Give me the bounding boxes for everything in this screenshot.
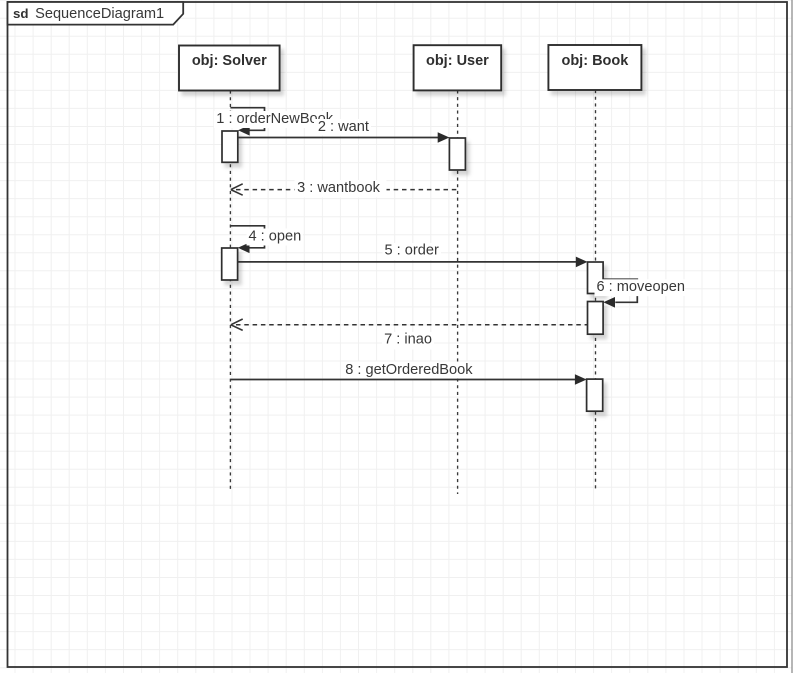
message 5 : order: [238, 257, 588, 268]
label 3 : wantbook: [295, 180, 387, 198]
lifeline Solver: [229, 91, 231, 490]
lifeline User: [457, 90, 459, 494]
message 2 : want: [238, 132, 450, 143]
actor box obj: User: [414, 45, 502, 90]
svg-text:8 : getOrderedBook: 8 : getOrderedBook: [345, 362, 473, 378]
svg-text:5 : order: 5 : order: [385, 243, 439, 259]
activation Book B1: [588, 262, 604, 294]
label 6 : moveopen: [595, 279, 686, 296]
label 8 : getOrderedBook: [344, 362, 474, 379]
canvas edge line: [791, 0, 793, 673]
label 5 : order: [383, 243, 442, 260]
activation Solver A2: [222, 248, 238, 280]
frame title tab sd SequenceDiagram1: [8, 2, 184, 25]
svg-text:3 : wantbook: 3 : wantbook: [297, 180, 380, 196]
svg-text:obj: Solver: obj: Solver: [192, 53, 267, 69]
activation User U1: [449, 138, 465, 170]
message 1 : orderNewBook (self): [230, 108, 264, 136]
svg-text:7 : inao: 7 : inao: [384, 331, 432, 347]
svg-text:obj: User: obj: User: [426, 53, 489, 69]
activation Book B3: [587, 379, 603, 411]
message 7 : inao (dashed return): [231, 319, 588, 330]
label 2 : want: [314, 119, 371, 136]
svg-text:SequenceDiagram1: SequenceDiagram1: [35, 6, 164, 22]
lifeline Book: [595, 90, 597, 489]
svg-text:obj: Book: obj: Book: [561, 53, 629, 69]
label 7 : inao: [382, 332, 434, 350]
message 6 : moveopen (self): [603, 279, 637, 307]
actor box obj: Solver: [179, 46, 280, 91]
activation Book B2: [588, 302, 604, 335]
label 1 : orderNewBook: [214, 111, 335, 128]
svg-text:6 : moveopen: 6 : moveopen: [597, 279, 685, 295]
message 4 : open (self): [230, 226, 264, 253]
message 3 : wantbook (dashed return): [231, 184, 458, 195]
svg-text:sd: sd: [13, 6, 29, 21]
actor box obj: Book: [548, 45, 641, 90]
label 4 : open: [247, 229, 304, 246]
activation Solver A1: [222, 131, 238, 162]
svg-text:4 : open: 4 : open: [249, 228, 302, 244]
message 8 : getOrderedBook: [231, 374, 587, 385]
svg-text:2 : want: 2 : want: [318, 119, 369, 135]
